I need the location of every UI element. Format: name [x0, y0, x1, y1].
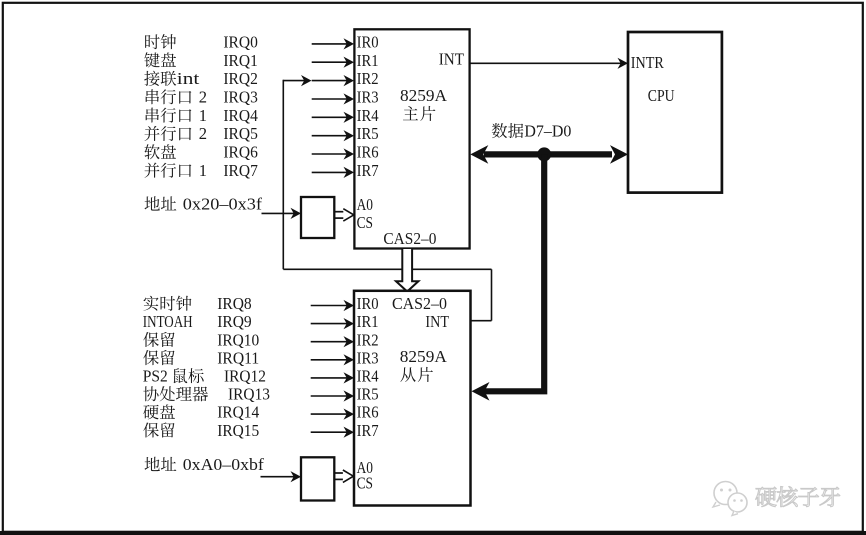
label: 串行口1 IRQ4: [146, 108, 159, 123]
IC U2 8259A slave chip body: [354, 291, 471, 506]
svg-text:IRQ9: IRQ9: [217, 312, 252, 331]
svg-text:IRQ6: IRQ6: [223, 143, 258, 162]
svg-text:IR1: IR1: [357, 51, 379, 70]
CPU block: [628, 32, 722, 193]
svg-text:0x20–0x3f: 0x20–0x3f: [183, 195, 263, 214]
wire: IRQ5 input arrow to master IR5: [312, 135, 348, 137]
svg-text:IRQ2: IRQ2: [223, 69, 258, 88]
svg-text:IR6: IR6: [357, 143, 379, 162]
svg-text:2: 2: [199, 88, 207, 107]
label: 数据D7-D0 bus name: [492, 123, 507, 138]
svg-text:IRQ13: IRQ13: [228, 385, 270, 404]
address decoder box 1 (master select): [301, 197, 334, 238]
node: data bus junction dot: [537, 147, 551, 161]
watermark: WeChat bubbles icon: [713, 482, 747, 516]
svg-text:IRQ0: IRQ0: [223, 33, 258, 52]
wire: IRQ15 input arrow to slave IR7: [311, 431, 348, 433]
svg-text:IR5: IR5: [357, 124, 379, 143]
svg-text:CPU: CPU: [648, 86, 675, 105]
wire: IRQ14 input arrow to slave IR6: [311, 413, 348, 415]
svg-text:IRQ5: IRQ5: [223, 124, 258, 143]
svg-text:IR1: IR1: [357, 312, 379, 331]
label: 地址 0xA0-0xbf: [145, 457, 160, 471]
wire: CAS2-0 cascade bus hollow arrow: [396, 249, 418, 292]
svg-text:IRQ14: IRQ14: [217, 403, 259, 422]
label: 实时钟 IRQ8: [143, 296, 158, 311]
svg-text:IR3: IR3: [357, 348, 379, 367]
svg-text:D7–D0: D7–D0: [524, 121, 571, 140]
svg-text:IRQ7: IRQ7: [223, 161, 258, 180]
label: 键盘 IRQ1: [144, 52, 159, 67]
wire: data bus branch down to slave (thick): [484, 154, 544, 391]
svg-text:int: int: [177, 69, 200, 88]
label: 并行口1 IRQ7: [145, 163, 160, 178]
label: 协处理器 IRQ13: [143, 386, 158, 401]
label: 串行口2 IRQ3: [146, 89, 159, 104]
svg-text:IR7: IR7: [357, 421, 379, 440]
svg-text:IR2: IR2: [357, 330, 379, 349]
svg-text:1: 1: [199, 106, 207, 125]
wire: IRQ9 input arrow to slave IR1: [311, 323, 348, 325]
wire: IRQ13 input arrow to slave IR5: [311, 395, 348, 397]
svg-text:IR0: IR0: [357, 33, 379, 52]
wire: IRQ2 input arrow to master IR2: [312, 80, 348, 82]
wire: IRQ12 input arrow to slave IR4: [311, 377, 348, 379]
IC U1 8259A master chip body: [354, 29, 469, 248]
svg-text:CAS2–0: CAS2–0: [392, 294, 447, 313]
label: 软盘 IRQ6: [144, 144, 159, 159]
svg-text:IRQ11: IRQ11: [217, 348, 259, 367]
label: 地址 0x20-0x3f: [145, 196, 160, 210]
svg-text:IRQ12: IRQ12: [224, 367, 266, 386]
wire: decoder1 to master A0/CS open arrow: [334, 211, 348, 213]
wire: IRQ6 input arrow to master IR6: [312, 153, 348, 155]
wire: IRQ11 input arrow to slave IR3: [311, 359, 348, 361]
wire: slave address select arrow: [261, 476, 296, 478]
label: 保留 IRQ10: [143, 332, 159, 347]
wire: IRQ3 input arrow to master IR3: [312, 98, 348, 100]
svg-text:INT: INT: [425, 312, 449, 331]
svg-text:CS: CS: [357, 474, 373, 493]
label: 接联int IRQ2: [144, 71, 159, 86]
wire: master INT to CPU INTR: [470, 62, 622, 64]
svg-text:IRQ3: IRQ3: [223, 88, 258, 107]
label: 时钟 IRQ0: [145, 34, 160, 49]
svg-text:IR5: IR5: [357, 385, 379, 404]
svg-text:1: 1: [199, 161, 207, 180]
address decoder box 2 (slave select): [301, 457, 334, 500]
label: 硬盘 IRQ14: [143, 405, 158, 420]
svg-text:INTR: INTR: [631, 53, 665, 72]
label: 保留 IRQ15: [143, 422, 159, 437]
label: 保留 IRQ11: [143, 350, 159, 365]
wire: IRQ0 input arrow to master IR0: [312, 43, 348, 45]
svg-text:IR4: IR4: [357, 106, 379, 125]
svg-text:A0: A0: [357, 195, 373, 214]
wire: IRQ1 input arrow to master IR1: [312, 61, 348, 63]
svg-text:8259A: 8259A: [400, 86, 448, 105]
wire: IRQ7 input arrow to master IR7: [312, 171, 348, 173]
svg-text:IRQ1: IRQ1: [223, 51, 258, 70]
svg-text:CAS2–0: CAS2–0: [383, 229, 436, 248]
svg-text:CS: CS: [357, 213, 373, 232]
svg-text:IR7: IR7: [357, 161, 379, 180]
svg-text:IRQ4: IRQ4: [223, 106, 258, 125]
svg-text:INTOAH: INTOAH: [143, 312, 193, 331]
svg-text:INT: INT: [439, 50, 465, 69]
wire: D7-D0 data bus between master and CPU (thick double arrow): [484, 151, 612, 157]
svg-text:PS2: PS2: [143, 367, 168, 386]
wire: IRQ8 input arrow to slave IR0: [311, 305, 348, 307]
value label 主片: [403, 106, 418, 120]
label: 并行口2 IRQ5: [145, 126, 160, 141]
watermark: 硬核子牙 text: [756, 487, 777, 507]
svg-text:2: 2: [199, 124, 207, 143]
svg-text:IRQ10: IRQ10: [217, 330, 259, 349]
svg-text:IR3: IR3: [357, 88, 379, 107]
svg-text:IR0: IR0: [357, 294, 379, 313]
wire: decoder2 to slave A0/CS open arrow: [334, 472, 348, 474]
wire: slave INT to master IR2 cascade feedback net: [283, 80, 305, 82]
wire: IRQ4 input arrow to master IR4: [312, 116, 348, 118]
svg-text:IRQ8: IRQ8: [217, 294, 252, 313]
wire: master address select arrow: [262, 212, 296, 214]
svg-text:IRQ15: IRQ15: [217, 421, 259, 440]
svg-text:IR6: IR6: [357, 403, 379, 422]
svg-text:IR4: IR4: [357, 367, 379, 386]
svg-text:8259A: 8259A: [400, 347, 448, 366]
wire: IRQ10 input arrow to slave IR2: [311, 341, 348, 343]
value label 从片: [400, 367, 415, 382]
svg-text:0xA0–0xbf: 0xA0–0xbf: [183, 455, 264, 474]
svg-text:IR2: IR2: [357, 69, 379, 88]
